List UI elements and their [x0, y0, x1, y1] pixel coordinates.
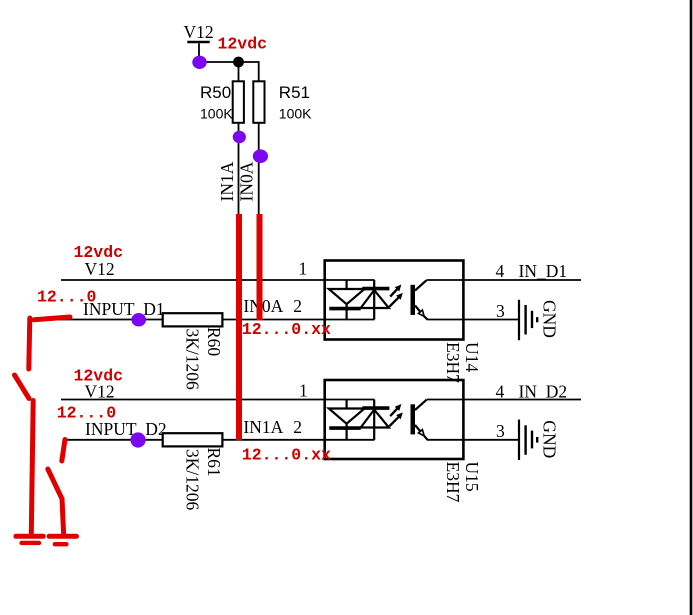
svg-text:12vdc: 12vdc — [218, 35, 268, 54]
svg-text:3K/1206: 3K/1206 — [183, 329, 203, 391]
svg-text:U14: U14 — [462, 342, 482, 372]
svg-text:IN_D2: IN_D2 — [519, 382, 568, 402]
optocoupler U14 box — [325, 261, 464, 340]
U15 LED vertical link 1 — [346, 400, 348, 440]
U15 LED A cathode bar — [329, 426, 360, 430]
resistor R60 — [163, 313, 224, 390]
sheet border line — [690, 0, 693, 615]
U14 LED A cathode bar — [329, 307, 360, 311]
switch S2 open blade — [48, 469, 62, 499]
svg-text:IN1A: IN1A — [243, 417, 283, 437]
wire U15 pin3 to ground — [427, 439, 519, 441]
switch S1 upper contact wire — [29, 318, 30, 369]
U14 light arrow 1 — [390, 285, 401, 297]
wire U14 pin4 IN_D1 — [427, 279, 581, 281]
node blob below R50 — [233, 131, 246, 143]
svg-text:R60: R60 — [204, 327, 224, 356]
node blob below R51 — [253, 149, 268, 163]
U15 phototransistor — [411, 400, 428, 440]
svg-text:2: 2 — [293, 296, 302, 316]
svg-text:R50: R50 — [200, 83, 231, 102]
svg-text:12...0.xx: 12...0.xx — [242, 320, 331, 339]
svg-text:1: 1 — [299, 259, 308, 279]
svg-text:12...0.xx: 12...0.xx — [242, 446, 331, 465]
wire V12 to pull-up resistors — [199, 62, 259, 81]
svg-text:GND: GND — [540, 420, 560, 458]
U14 LED vertical link 2 — [373, 280, 375, 320]
switch S1 red lead to INPUT_D1 — [34, 317, 70, 320]
U14 light arrow 2 — [389, 293, 402, 307]
junction dot — [233, 57, 244, 68]
ground symbol U14 — [519, 300, 537, 340]
svg-text:1: 1 — [299, 381, 308, 401]
resistor R50 — [200, 81, 244, 123]
svg-text:IN_D1: IN_D1 — [519, 261, 568, 281]
U15 LED A (down diode) — [329, 409, 365, 424]
svg-text:IN0A: IN0A — [243, 296, 283, 316]
wire junction branch to R50 — [238, 62, 240, 81]
U14 LED vertical link 1 — [346, 280, 348, 320]
U14 LED B (up diode) — [361, 290, 389, 308]
svg-text:3: 3 — [496, 301, 505, 321]
svg-text:4: 4 — [496, 382, 505, 402]
svg-text:3: 3 — [496, 421, 505, 441]
svg-text:R61: R61 — [204, 448, 224, 477]
svg-text:E3H7: E3H7 — [443, 462, 463, 503]
svg-text:100K: 100K — [200, 105, 233, 121]
red highlight net IN0A — [257, 214, 263, 320]
red highlight net IN1A — [236, 214, 242, 440]
optocoupler U15 box — [325, 380, 464, 459]
svg-text:E3H7: E3H7 — [443, 342, 463, 383]
svg-text:4: 4 — [496, 261, 505, 281]
svg-text:V12: V12 — [85, 382, 115, 402]
wire V12 rail to U15 pin1 — [61, 399, 375, 401]
node blob at V12 corner — [192, 56, 206, 69]
U15 LED vertical link 2 — [373, 400, 375, 440]
svg-text:IN0A: IN0A — [237, 161, 257, 201]
resistor R51 — [253, 81, 312, 123]
wire U14 pin3 to ground — [427, 319, 519, 321]
node blob on INPUT_D1 — [131, 313, 146, 326]
wire U15 pin4 IN_D2 — [427, 399, 581, 401]
U15 light arrow 2 — [389, 412, 402, 426]
ground symbol S1 (red) — [16, 536, 43, 543]
svg-text:V12: V12 — [85, 259, 115, 279]
switch S2 lower wire to ground — [62, 499, 64, 534]
switch S2 upper contact wire — [62, 440, 65, 462]
switch S1 lower wire to ground — [31, 401, 33, 534]
svg-text:GND: GND — [540, 300, 560, 338]
wire V12 rail to U14 pin1 — [61, 279, 375, 281]
svg-text:IN1A: IN1A — [217, 161, 237, 201]
ground symbol S2 (red) — [49, 536, 76, 544]
wire IN1A vertical — [238, 123, 240, 440]
power symbol V12 top — [184, 22, 214, 62]
svg-text:100K: 100K — [279, 105, 312, 121]
svg-text:2: 2 — [293, 417, 302, 437]
U14 LED B cathode bar — [362, 287, 389, 291]
U14 LED A (down diode) — [329, 289, 365, 304]
switch S1 open blade — [15, 375, 30, 399]
U15 LED B cathode bar — [362, 406, 389, 410]
wire IN0A vertical — [258, 123, 260, 320]
resistor R61 — [163, 433, 224, 510]
wire INPUT_D1 to U14 pin2 — [45, 319, 375, 321]
svg-text:INPUT_D1: INPUT_D1 — [83, 299, 165, 319]
U15 light arrow 1 — [390, 404, 401, 416]
svg-text:3K/1206: 3K/1206 — [183, 449, 203, 511]
svg-text:V12: V12 — [184, 22, 214, 42]
svg-text:R51: R51 — [279, 83, 310, 102]
ground symbol U15 — [519, 420, 537, 460]
svg-text:U15: U15 — [462, 462, 482, 492]
U15 LED B (up diode) — [361, 410, 389, 428]
node blob on INPUT_D2 — [130, 432, 145, 447]
wire INPUT_D2 to U15 pin2 — [63, 439, 375, 441]
U14 phototransistor — [411, 280, 428, 319]
svg-text:INPUT_D2: INPUT_D2 — [85, 419, 167, 439]
